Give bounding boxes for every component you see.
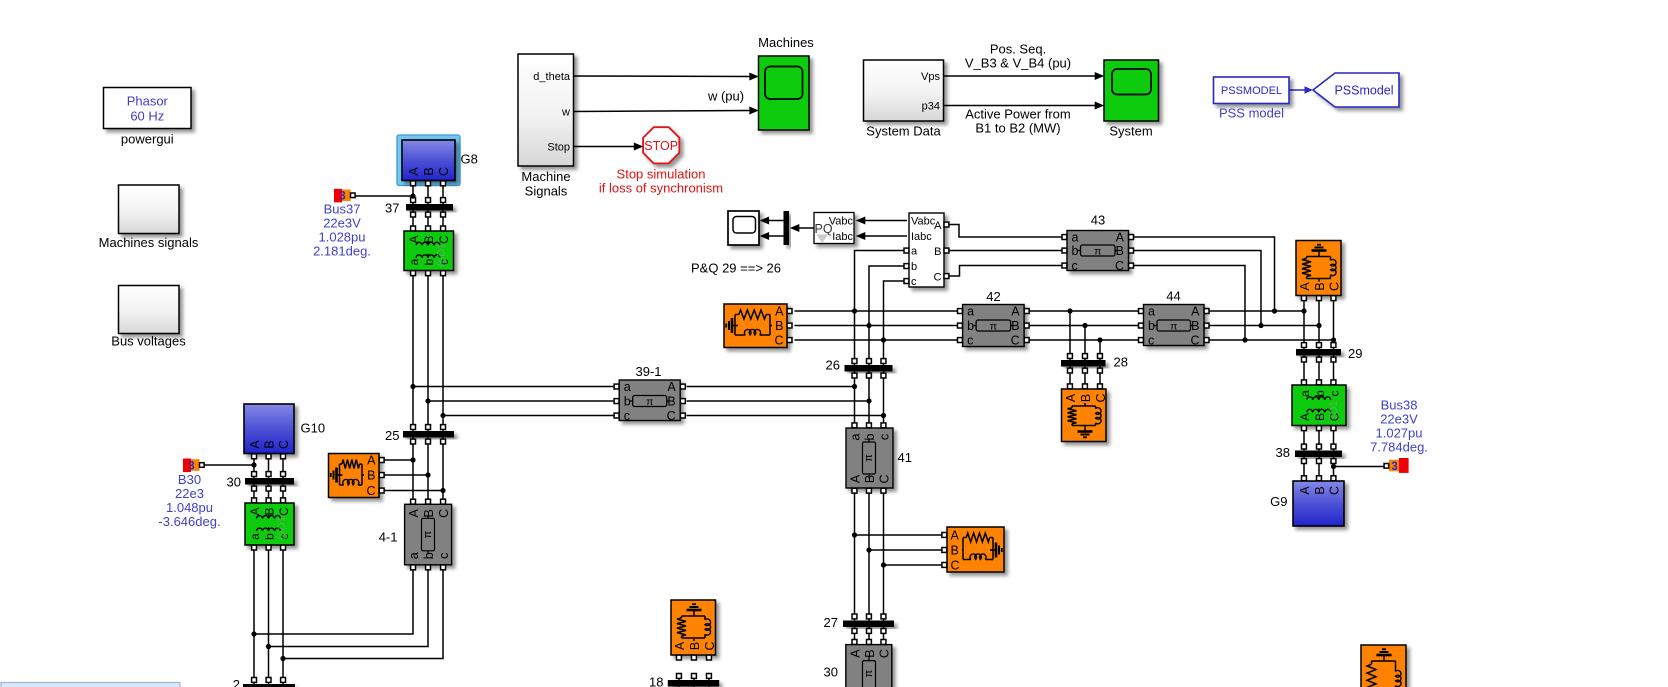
svg-text:B: B (688, 642, 702, 650)
svg-text:(eD1: (eD1 (436, 243, 448, 267)
svg-text:powergui: powergui (121, 132, 174, 147)
svg-text:C: C (1328, 282, 1342, 291)
svg-text:C: C (667, 409, 676, 423)
svg-text:Iabc: Iabc (832, 231, 853, 243)
svg-text:c: c (437, 553, 451, 559)
svg-text:b: b (1313, 390, 1327, 397)
svg-text:c: c (1072, 259, 1078, 273)
svg-text:A: A (849, 474, 863, 483)
svg-text:a: a (967, 305, 974, 319)
svg-text:B: B (422, 167, 436, 175)
svg-text:41: 41 (898, 450, 912, 465)
svg-text:3: 3 (188, 460, 194, 472)
svg-text:c: c (967, 334, 973, 348)
svg-text:B: B (1079, 394, 1093, 402)
svg-text:C: C (1190, 334, 1199, 348)
svg-text:C: C (366, 484, 375, 498)
svg-text:a: a (1072, 231, 1079, 245)
svg-text:A: A (667, 380, 676, 394)
svg-text:b: b (422, 552, 436, 559)
svg-text:Bus38: Bus38 (1381, 398, 1418, 413)
svg-text:B: B (951, 544, 959, 558)
svg-text:C: C (951, 559, 960, 573)
svg-text:b: b (624, 395, 631, 409)
svg-text:B: B (263, 507, 277, 515)
svg-text:π: π (1170, 320, 1177, 332)
svg-text:44: 44 (1166, 289, 1180, 304)
svg-text:Signals: Signals (525, 184, 568, 199)
svg-text:A: A (1191, 305, 1200, 319)
svg-text:b: b (1072, 244, 1079, 258)
svg-text:A: A (1011, 305, 1020, 319)
svg-text:30: 30 (227, 475, 241, 490)
svg-text:C: C (277, 507, 291, 516)
svg-text:π: π (422, 530, 434, 538)
svg-text:C: C (1011, 334, 1020, 348)
svg-text:π: π (990, 320, 997, 332)
svg-text:System Data: System Data (866, 124, 941, 139)
svg-text:A: A (1298, 486, 1312, 495)
svg-text:1.027pu: 1.027pu (1376, 426, 1423, 441)
svg-text:38: 38 (1276, 445, 1290, 460)
svg-text:π: π (863, 454, 875, 462)
svg-text:A: A (1064, 393, 1078, 402)
svg-text:a: a (407, 552, 421, 559)
svg-text:B: B (1313, 413, 1327, 421)
svg-text:60 Hz: 60 Hz (130, 109, 164, 124)
svg-text:43: 43 (1091, 213, 1105, 228)
svg-text:a: a (1148, 305, 1155, 319)
svg-text:2: 2 (233, 677, 240, 687)
svg-text:Bus voltages: Bus voltages (111, 334, 186, 349)
svg-text:a: a (911, 246, 918, 258)
svg-text:p34: p34 (922, 101, 940, 113)
svg-text:C: C (1094, 393, 1108, 402)
svg-text:-3.646deg.: -3.646deg. (158, 514, 220, 529)
svg-text:B1 to B2 (MW): B1 to B2 (MW) (975, 121, 1060, 136)
svg-text:a: a (624, 380, 631, 394)
svg-text:Bus37: Bus37 (324, 202, 361, 217)
svg-text:P&Q 29 ==> 26: P&Q 29 ==> 26 (691, 261, 781, 276)
svg-text:C: C (1328, 486, 1342, 495)
svg-text:4-1: 4-1 (379, 530, 398, 545)
svg-text:B: B (1313, 282, 1327, 290)
svg-text:28: 28 (1114, 355, 1128, 370)
svg-text:PSSmodel: PSSmodel (1334, 84, 1393, 98)
svg-text:Iabc: Iabc (911, 231, 932, 243)
svg-text:Vabc: Vabc (911, 216, 936, 228)
svg-text:C: C (878, 474, 892, 483)
svg-text:C: C (437, 509, 451, 518)
svg-text:Machines: Machines (758, 35, 814, 50)
svg-text:b: b (863, 433, 877, 440)
svg-text:PSS model: PSS model (1219, 106, 1284, 121)
svg-text:22e3: 22e3 (175, 486, 204, 501)
svg-text:3: 3 (1391, 461, 1397, 473)
svg-text:b: b (422, 258, 436, 265)
svg-text:22e3V: 22e3V (323, 216, 361, 231)
svg-text:(D1: (D1 (1328, 400, 1340, 418)
svg-text:A: A (934, 220, 942, 232)
svg-text:B: B (422, 509, 436, 517)
svg-text:A: A (248, 507, 262, 515)
svg-text:A: A (367, 454, 376, 468)
svg-text:25: 25 (385, 428, 399, 443)
svg-text:A: A (1116, 231, 1125, 245)
svg-text:A: A (849, 649, 863, 658)
svg-text:A: A (1298, 282, 1312, 291)
svg-text:A: A (407, 508, 421, 517)
svg-text:Active Power from: Active Power from (965, 107, 1070, 122)
svg-text:PQ: PQ (815, 222, 833, 236)
svg-text:C: C (277, 440, 291, 449)
svg-text:V_B3 & V_B4 (pu): V_B3 & V_B4 (pu) (965, 56, 1071, 71)
svg-text:42: 42 (986, 289, 1000, 304)
svg-text:π: π (863, 669, 875, 677)
svg-text:G8: G8 (461, 152, 478, 167)
svg-text:7.784deg.: 7.784deg. (1370, 440, 1428, 455)
svg-text:C: C (878, 649, 892, 658)
svg-text:c: c (1148, 334, 1154, 348)
svg-text:a: a (407, 258, 421, 265)
svg-text:c: c (878, 434, 892, 440)
svg-text:b: b (911, 261, 917, 273)
svg-text:π: π (646, 396, 653, 408)
svg-text:Vps: Vps (921, 71, 940, 83)
svg-text:a: a (849, 433, 863, 440)
svg-text:1.028pu: 1.028pu (319, 230, 366, 245)
svg-text:b: b (967, 319, 974, 333)
svg-text:C: C (1115, 259, 1124, 273)
svg-text:System: System (1109, 124, 1152, 139)
svg-text:B: B (1313, 486, 1327, 494)
svg-text:c: c (1328, 391, 1342, 397)
svg-text:Pos. Seq.: Pos. Seq. (990, 42, 1046, 57)
svg-text:if loss of synchronism: if loss of synchronism (599, 181, 723, 196)
svg-text:Stop simulation: Stop simulation (617, 167, 706, 182)
svg-text:A: A (407, 167, 421, 176)
svg-text:d_theta: d_theta (533, 71, 571, 83)
svg-text:Phasor: Phasor (127, 94, 169, 109)
svg-text:A: A (951, 529, 960, 543)
svg-text:STOP: STOP (644, 139, 678, 153)
svg-text:w: w (561, 107, 570, 119)
svg-text:26: 26 (826, 358, 840, 373)
svg-text:a: a (248, 533, 262, 540)
svg-text:Machines signals: Machines signals (99, 235, 199, 250)
svg-text:29: 29 (1348, 346, 1362, 361)
svg-text:B: B (775, 319, 783, 333)
svg-text:Machine: Machine (521, 169, 570, 184)
svg-text:B: B (863, 649, 877, 657)
svg-text:b: b (1148, 319, 1155, 333)
svg-text:G9: G9 (1270, 494, 1287, 509)
svg-text:b: b (263, 533, 277, 540)
svg-text:G10: G10 (301, 421, 326, 436)
svg-text:c: c (911, 276, 917, 288)
svg-text:2.181deg.: 2.181deg. (313, 244, 371, 259)
svg-text:Stop: Stop (547, 142, 570, 154)
svg-text:a: a (1298, 390, 1312, 397)
svg-text:22e3V: 22e3V (1380, 412, 1418, 427)
svg-text:w (pu): w (pu) (707, 89, 744, 104)
svg-text:C: C (437, 167, 451, 176)
svg-text:PSSMODEL: PSSMODEL (1221, 85, 1282, 97)
svg-text:A: A (1298, 413, 1312, 421)
svg-text:π: π (1094, 245, 1101, 257)
svg-text:A: A (775, 305, 784, 319)
svg-text:27: 27 (824, 615, 838, 630)
svg-text:B: B (863, 475, 877, 483)
svg-text:C: C (934, 272, 942, 284)
svg-text:B: B (934, 246, 941, 258)
svg-text:A: A (248, 440, 262, 449)
svg-text:A: A (673, 641, 687, 650)
svg-text:39-1: 39-1 (635, 364, 661, 379)
svg-text:c: c (624, 409, 630, 423)
svg-text:18: 18 (649, 675, 663, 687)
svg-text:B: B (367, 469, 375, 483)
svg-text:B: B (263, 440, 277, 448)
svg-text:(eD1: (eD1 (276, 516, 288, 540)
svg-text:C: C (703, 641, 717, 650)
svg-text:1.048pu: 1.048pu (166, 500, 213, 515)
svg-text:37: 37 (385, 201, 399, 216)
svg-text:C: C (774, 334, 783, 348)
svg-text:B30: B30 (178, 472, 201, 487)
svg-text:30: 30 (824, 665, 838, 680)
